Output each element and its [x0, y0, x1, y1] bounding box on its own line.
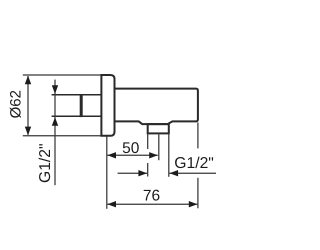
inlet stub bottom line	[52, 115, 102, 117]
arrowhead Ø62 down	[25, 127, 31, 136]
arrowhead G1/2 right pointing right	[138, 170, 147, 176]
dimension line 76	[107, 203, 197, 205]
extension line body right lower	[197, 178, 199, 209]
svg-text:76: 76	[143, 188, 160, 205]
arrowhead 76 right	[189, 201, 198, 207]
svg-text:Ø62: Ø62	[8, 90, 25, 118]
arrowhead G1/2 right pointing left	[170, 170, 179, 176]
leader line G1/2 left	[54, 80, 56, 186]
inlet collar thick edge	[80, 94, 83, 117]
extension line Ø62 bottom	[23, 135, 102, 137]
extension line outlet left wall lower	[147, 163, 149, 177]
extension line outlet right wall	[168, 134, 170, 176]
outlet collar	[148, 124, 169, 133]
arrowhead Ø62 up	[25, 76, 31, 85]
arrowhead G1/2 left up	[52, 117, 58, 126]
extension line outlet centre	[158, 134, 160, 160]
extension line outlet left wall upper	[147, 134, 149, 149]
extension line Ø62 top	[23, 74, 102, 76]
arrowhead 76 left	[107, 201, 116, 207]
dimension line Ø62	[27, 76, 29, 135]
svg-text:G1/2": G1/2"	[174, 155, 214, 172]
dimension line 50	[107, 154, 157, 156]
extension line flange centre	[106, 136, 108, 209]
svg-text:G1/2": G1/2"	[37, 143, 54, 183]
arrowhead G1/2 left down	[52, 85, 58, 94]
dimension tail G1/2 right right part	[170, 172, 217, 174]
svg-text:50: 50	[122, 140, 140, 157]
extension line body right upper	[197, 123, 199, 149]
inlet stub top line	[52, 94, 102, 96]
arrowhead 50 right	[149, 152, 158, 158]
arrowhead 50 left	[107, 152, 116, 158]
wall flange	[101, 75, 114, 136]
dimension tail G1/2 right left part	[118, 172, 147, 174]
body outline	[115, 89, 198, 125]
